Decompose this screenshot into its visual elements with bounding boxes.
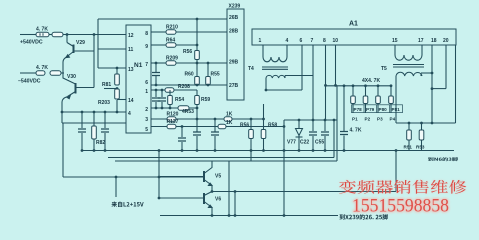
resistor 4.7K lower a	[36, 71, 45, 76]
node	[196, 84, 199, 87]
node	[234, 214, 237, 217]
resistor R120	[167, 117, 176, 122]
wire	[104, 112, 106, 128]
svg-text:R82: R82	[96, 140, 105, 146]
wire	[196, 84, 198, 87]
node	[211, 214, 214, 217]
node	[265, 89, 268, 92]
wire T5 sec right	[420, 73, 422, 76]
svg-text:V30: V30	[67, 74, 76, 80]
transistor V5 base bar	[203, 171, 205, 182]
resistor R82	[92, 126, 97, 139]
svg-text:3: 3	[145, 117, 148, 123]
node	[196, 62, 199, 65]
resistor network P81	[389, 96, 394, 104]
wire A1 pin17 down	[421, 45, 423, 55]
node	[283, 125, 286, 128]
wire	[298, 120, 300, 128]
svg-text:1K: 1K	[226, 120, 233, 126]
node	[324, 84, 327, 87]
transformer T5 secondary	[396, 72, 422, 76]
svg-text:R81: R81	[102, 82, 111, 88]
wire	[196, 108, 198, 132]
svg-text:15: 15	[392, 38, 398, 44]
wire	[421, 140, 423, 151]
node	[431, 87, 434, 90]
node	[207, 62, 210, 65]
node bus	[312, 149, 315, 152]
wire output	[212, 191, 396, 193]
resistor R210	[166, 30, 176, 35]
wire top rail to 26B	[98, 18, 227, 20]
wire lower rail	[62, 122, 126, 124]
resistor 4.7K upper a	[36, 32, 49, 37]
svg-text:8: 8	[323, 38, 326, 44]
svg-text:P1: P1	[352, 117, 358, 122]
wire	[408, 123, 410, 130]
resistor R51	[407, 130, 412, 140]
svg-text:R58: R58	[268, 123, 277, 129]
wire V30 emitter down	[62, 97, 67, 123]
node	[420, 122, 423, 125]
svg-text:T4: T4	[248, 66, 254, 72]
label from L2+15V	[112, 202, 144, 207]
wire base tie vertical	[93, 35, 95, 88]
svg-text:20: 20	[443, 38, 449, 44]
wire	[214, 119, 216, 132]
capacitor C right	[101, 129, 109, 132]
node bus	[104, 149, 107, 152]
svg-text:29B: 29B	[229, 60, 239, 66]
svg-text:P79: P79	[366, 107, 375, 112]
wire N1 pin2	[151, 107, 197, 109]
svg-text:R59: R59	[201, 97, 210, 103]
capacitor	[211, 132, 219, 135]
wire	[93, 112, 95, 126]
node	[116, 87, 119, 90]
wire	[263, 119, 265, 130]
svg-text:5: 5	[145, 127, 148, 133]
node	[377, 84, 380, 87]
node	[196, 18, 199, 21]
wire V6 emitter down	[211, 208, 213, 216]
wire T5 sec left down	[395, 76, 397, 123]
node	[115, 176, 118, 179]
svg-text:12: 12	[128, 33, 134, 39]
capacitor	[158, 98, 166, 101]
capacitor 4.7K column	[340, 132, 348, 135]
node	[262, 118, 265, 121]
svg-text:T5: T5	[381, 66, 387, 72]
svg-text:8: 8	[145, 31, 148, 37]
wire	[49, 34, 52, 36]
transformer T4 core b	[262, 68, 288, 70]
wire	[181, 127, 183, 138]
wire	[181, 142, 183, 151]
svg-text:28B: 28B	[229, 29, 239, 35]
resistor R59	[195, 96, 200, 105]
node	[324, 119, 327, 122]
wire N1 pin13	[98, 67, 126, 69]
stub under R81 label	[104, 88, 117, 90]
label frame P78-P81	[352, 105, 403, 113]
node	[158, 197, 161, 200]
node	[283, 214, 286, 217]
node V29 collector	[66, 33, 69, 36]
bus ground	[82, 150, 454, 152]
node	[93, 33, 96, 36]
node	[155, 62, 158, 65]
resistor R54	[168, 96, 173, 105]
transformer T5 primary	[395, 55, 422, 60]
svg-text:V6: V6	[215, 197, 221, 203]
module A1 body	[252, 29, 456, 45]
svg-text:R53: R53	[416, 145, 425, 150]
node	[334, 84, 337, 87]
zener V77 triangle	[296, 129, 303, 136]
connector X239 body	[227, 9, 244, 100]
wire	[196, 90, 198, 95]
wire A1 pin4 down	[286, 45, 288, 57]
svg-text:4X4. 7K: 4X4. 7K	[362, 78, 380, 84]
node	[116, 67, 119, 70]
node bus	[395, 149, 398, 152]
transistor V6 emitter	[204, 202, 212, 208]
wire +540VDC rail	[20, 34, 36, 36]
node bus	[158, 149, 161, 152]
watermark line1	[339, 180, 466, 194]
bus mid upper	[108, 157, 334, 159]
wire cap riser	[343, 86, 345, 131]
resistor 4R53	[178, 106, 189, 111]
transistor V29 emitter	[67, 52, 74, 58]
bus bottom	[160, 215, 338, 217]
wire base feed	[63, 176, 204, 178]
wire	[421, 123, 423, 130]
wire supply drop	[115, 177, 117, 197]
node	[333, 119, 336, 122]
wire	[352, 104, 354, 114]
wire	[232, 118, 264, 120]
wire	[116, 68, 118, 74]
wire A1 corner drop	[455, 45, 457, 123]
wire A1 pin15 down	[394, 45, 396, 55]
node bus	[214, 149, 217, 152]
capacitor C left	[78, 129, 86, 132]
wire N1 pin5	[151, 126, 218, 128]
transformer T4 core a	[262, 66, 288, 68]
wire	[196, 105, 198, 109]
svg-text:6: 6	[300, 38, 303, 44]
wire V29 base stub	[75, 50, 95, 52]
wire riser output	[395, 151, 397, 192]
wire	[169, 105, 171, 109]
wire	[312, 120, 314, 131]
transistor V29 emitter arrow	[66, 55, 70, 58]
resistor 1K upper	[224, 117, 232, 122]
wire	[250, 119, 252, 130]
wire N1 pin8	[151, 31, 166, 33]
wire	[207, 63, 209, 77]
wire A1 pin7 down	[312, 45, 314, 120]
wire	[176, 44, 197, 46]
node bus	[262, 149, 265, 152]
wire	[421, 72, 432, 74]
wire	[211, 186, 213, 192]
transistor V6 collector	[204, 192, 212, 196]
node	[390, 84, 393, 87]
svg-text:P4: P4	[390, 117, 396, 122]
node bus	[93, 149, 96, 152]
node	[431, 72, 434, 75]
wire V29 emitter to V30 collector	[63, 57, 76, 84]
node	[196, 107, 199, 110]
resistor R208	[165, 88, 174, 93]
node bus	[283, 149, 286, 152]
wire	[81, 133, 83, 151]
wire	[343, 136, 345, 151]
transformer T4 secondary	[266, 75, 285, 78]
wire	[161, 90, 163, 97]
transistor V5 collector	[204, 161, 212, 174]
svg-text:27B: 27B	[229, 83, 239, 89]
svg-text:R51: R51	[404, 145, 413, 150]
node bus	[81, 149, 84, 152]
wire	[81, 112, 83, 128]
wire	[324, 120, 326, 131]
capacitor	[152, 73, 160, 76]
label to-X239	[340, 214, 388, 220]
resistor R137	[167, 124, 176, 129]
wire	[155, 63, 157, 72]
svg-text:R56: R56	[240, 123, 249, 129]
svg-text:26B: 26B	[229, 15, 239, 21]
wire	[67, 43, 74, 47]
transformer T5 core b	[393, 66, 424, 68]
wire N1 pin4 rail	[62, 111, 126, 113]
transformer T5 core a	[393, 64, 424, 66]
wire	[169, 90, 171, 95]
node	[431, 122, 434, 125]
resistor 1K lower	[218, 124, 226, 129]
node	[196, 118, 199, 121]
node	[214, 118, 217, 121]
svg-text:A1: A1	[349, 21, 358, 28]
node	[228, 214, 231, 217]
wire	[298, 136, 300, 151]
resistor 4.7K lower b	[50, 71, 61, 76]
svg-text:9: 9	[145, 44, 148, 50]
wire riser	[263, 104, 265, 119]
wire T4 sec rail	[266, 89, 302, 91]
svg-text:P2: P2	[365, 117, 371, 122]
wire -540VDC rail	[20, 72, 36, 74]
wire T4 sec right	[284, 76, 286, 79]
wire T4 sec left	[265, 78, 267, 90]
wire long vertical	[97, 19, 99, 68]
wire to N1 pin12	[63, 34, 126, 36]
label to-N6-pin3	[428, 157, 458, 161]
wire	[93, 139, 95, 151]
svg-text:14: 14	[128, 98, 134, 104]
wire A1 pin10 down	[335, 45, 337, 85]
wire	[250, 139, 252, 151]
svg-text:15515598858: 15515598858	[352, 196, 449, 217]
svg-text:R60: R60	[185, 72, 194, 78]
wire loop left	[62, 123, 64, 177]
wire 26B rail to R56 column	[196, 19, 198, 45]
svg-text:4R53: 4R53	[182, 109, 194, 115]
node	[234, 190, 237, 193]
wire T4 sec top	[285, 75, 313, 77]
node	[312, 119, 315, 122]
svg-text:4. 7K: 4. 7K	[36, 65, 48, 71]
wire clamp rail	[284, 119, 337, 121]
capacitor C55	[321, 132, 329, 135]
svg-text:2: 2	[145, 107, 148, 113]
wire	[104, 133, 106, 151]
wire R203 to pin14	[116, 98, 118, 101]
resistor network P79	[363, 96, 368, 104]
svg-text:R203: R203	[98, 100, 110, 106]
svg-text:7: 7	[145, 62, 148, 68]
resistor R209	[166, 61, 176, 66]
wire	[155, 90, 157, 97]
wire	[155, 76, 157, 85]
svg-text:13: 13	[128, 67, 134, 73]
watermark halo1	[339, 180, 466, 194]
wire	[352, 86, 354, 96]
capacitor C22	[309, 132, 317, 135]
capacitor	[178, 138, 186, 141]
node bus	[298, 149, 301, 152]
svg-text:P3: P3	[377, 117, 383, 122]
wire V5 base	[159, 176, 204, 178]
node	[104, 111, 107, 114]
resistor network P80	[376, 96, 381, 104]
wire N1 pin14	[117, 99, 126, 101]
wire base rail	[396, 122, 456, 124]
wire R203 down	[116, 100, 118, 112]
wire	[61, 72, 64, 74]
svg-text:V5: V5	[215, 174, 221, 180]
svg-text:4. 7K: 4. 7K	[36, 27, 48, 33]
wire A1 pin6 down	[301, 45, 303, 90]
wire N1 pin7	[151, 62, 166, 64]
wire	[365, 86, 367, 96]
wire	[155, 102, 157, 108]
node	[169, 89, 172, 92]
transistor V30 emitter	[68, 92, 76, 97]
node	[116, 111, 119, 114]
resistor R60	[195, 77, 200, 85]
node	[93, 111, 96, 114]
wire N1 pin1	[151, 89, 197, 91]
svg-text:R54: R54	[175, 97, 184, 103]
svg-text:4. 7K: 4. 7K	[350, 128, 362, 134]
wire stub	[250, 151, 252, 162]
transistor V6 emitter arrow	[208, 205, 212, 207]
resistor R64	[166, 43, 176, 48]
resistor R56 lower	[249, 130, 254, 139]
wire	[377, 104, 379, 114]
node	[181, 125, 184, 128]
svg-text:C22: C22	[300, 140, 309, 146]
wire	[207, 84, 209, 87]
wire riser	[228, 161, 230, 216]
node bus	[324, 149, 327, 152]
wire base tie	[158, 151, 160, 199]
wire clamp left leg	[283, 120, 285, 216]
node	[155, 84, 158, 87]
transformer T4 primary	[263, 57, 287, 62]
node	[196, 44, 199, 47]
node bus	[343, 149, 346, 152]
svg-text:1: 1	[259, 38, 262, 44]
resistor 4.7K upper b	[52, 32, 63, 37]
wire A1 pin20 down	[445, 45, 447, 89]
transistor V30 emitter arrow	[67, 96, 71, 99]
svg-text:R56: R56	[183, 49, 192, 55]
wire	[390, 104, 392, 114]
node	[408, 122, 411, 125]
wire pin20 join	[432, 88, 446, 90]
wire	[196, 45, 198, 50]
wire	[196, 63, 198, 77]
wire	[377, 86, 379, 96]
resistor R56 upper	[195, 51, 200, 60]
node	[298, 119, 301, 122]
wire R210 to X239 28B	[176, 31, 227, 33]
resistor R81	[115, 74, 120, 85]
IC N1 body	[126, 25, 151, 133]
bus mid lower	[115, 160, 337, 162]
node bus	[181, 149, 184, 152]
node	[61, 111, 64, 114]
wire	[161, 102, 163, 108]
node	[155, 89, 158, 92]
wire R209 to X239 29B	[176, 62, 227, 64]
wire	[324, 136, 326, 151]
wire	[312, 136, 314, 151]
wire A1 pin1 down	[262, 45, 264, 57]
node	[343, 84, 346, 87]
node	[364, 84, 367, 87]
svg-text:V77: V77	[287, 140, 296, 146]
node	[207, 84, 210, 87]
zener V77 bar	[296, 136, 303, 138]
wire N1 pin6 to X239 27B	[151, 84, 227, 86]
node bus	[250, 149, 253, 152]
resistor network P78	[351, 96, 356, 104]
transistor V5 emitter	[204, 180, 212, 186]
wire	[263, 139, 265, 151]
svg-text:N1: N1	[134, 62, 143, 69]
wire -540 into node	[61, 72, 64, 74]
node	[352, 84, 355, 87]
node bus	[196, 149, 199, 152]
resistor R55	[206, 77, 211, 85]
wire	[390, 86, 392, 96]
wire N1 pin9	[151, 44, 166, 46]
resistor R53	[419, 130, 424, 140]
node	[250, 118, 253, 121]
transistor V30 base bar	[75, 83, 77, 94]
resistor R58	[261, 130, 266, 139]
svg-text:4: 4	[286, 38, 289, 44]
node	[161, 107, 164, 110]
wire A1 pin18 down	[431, 45, 433, 123]
